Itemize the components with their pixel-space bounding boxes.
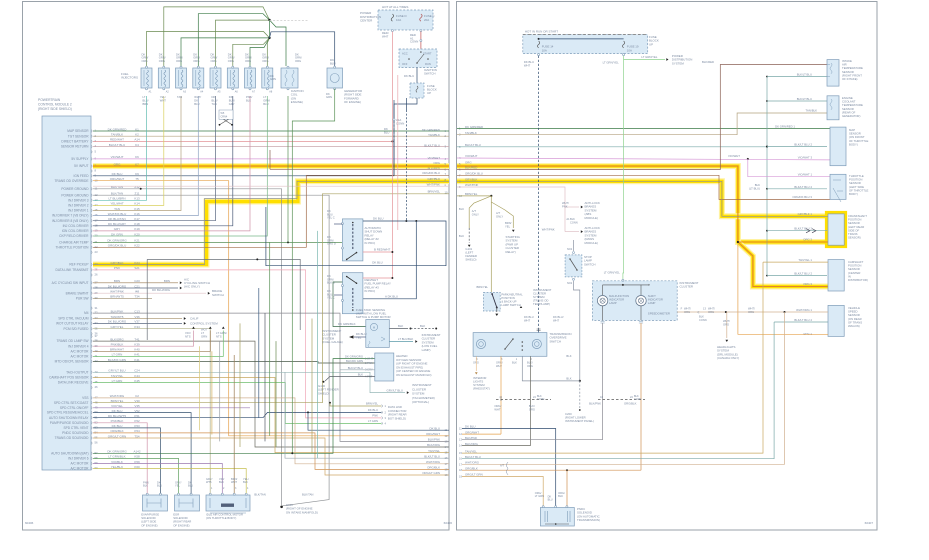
- wire row 60 YEL/BLK to idle air control pin 4: [93, 469, 246, 491]
- wire row 41 LT GRN up-arrow speed control: [93, 331, 223, 357]
- svg-text:LAMP SWITCH: LAMP SWITCH: [501, 303, 520, 307]
- wire row 48 BRN/YEL up to page-edge row: [93, 194, 449, 403]
- svg-text:WAGON): WAGON): [848, 324, 860, 328]
- svg-text:18: 18: [459, 468, 462, 472]
- svg-text:BLK: BLK: [459, 234, 464, 238]
- svg-text:15: 15: [459, 451, 462, 455]
- svg-text:60: 60: [95, 466, 99, 470]
- wire bottom 11 DK BLU to PNDC solenoid: [462, 429, 556, 508]
- svg-text:OF INTAKE): OF INTAKE): [842, 77, 858, 81]
- svg-text:T34: T34: [134, 294, 140, 298]
- vehicle speed sensor box: [828, 305, 844, 336]
- svg-text:YEL: YEL: [505, 224, 511, 228]
- wire bottom 18 ORG/BLK to cluster shift lamp and solenoid: [462, 469, 641, 471]
- svg-text:DISTRIBUTOR): DISTRIBUTOR): [848, 278, 868, 282]
- svg-text:OF ENGINE): OF ENGINE): [173, 523, 189, 527]
- relay pin C wires: [334, 294, 342, 296]
- TOS ORG/WHT wire to bottom row 12: [500, 356, 502, 434]
- svg-text:ORG: ORG: [433, 161, 440, 165]
- svg-text:GRY/BLK: GRY/BLK: [465, 178, 478, 182]
- svg-text:13: 13: [95, 198, 99, 202]
- svg-text:WHT/ORG: WHT/ORG: [426, 460, 441, 464]
- stop lamp dashed to C200: [579, 381, 581, 408]
- svg-text:GRN/: GRN/: [263, 98, 270, 102]
- wire row 25 PNK to data link connector: [93, 270, 382, 418]
- data link BRN/YEL branch: [329, 402, 331, 404]
- svg-text:TRANS OD OVERRIDE: TRANS OD OVERRIDE: [54, 179, 88, 183]
- svg-text:THROTTLE POSITION: THROTTLE POSITION: [56, 245, 90, 249]
- svg-text:IN PDC): IN PDC): [365, 289, 376, 293]
- wire row 51 DK BLU/WT5 to data link pin 2 with bevel: [93, 412, 382, 417]
- fuel pump relay RED/WHT pin: [363, 277, 393, 279]
- svg-text:SPD CTRL VACUUM: SPD CTRL VACUUM: [58, 317, 88, 321]
- fuse block up box: [410, 83, 424, 98]
- svg-text:DK BLU/: DK BLU/: [553, 315, 564, 319]
- BRN/YEL branch to park/neutral switch: [490, 196, 492, 293]
- svg-text:GRN: GRN: [270, 77, 276, 81]
- svg-text:SPD CTRL SET/COAST: SPD CTRL SET/COAST: [54, 401, 89, 405]
- wire row 57 DK GRN/ORG to oxygen sensor pin 1: [93, 359, 375, 454]
- svg-text:BLK/PNK: BLK/PNK: [428, 438, 440, 442]
- harness DK BLU wire to generator: [270, 32, 335, 66]
- svg-text:BLU: BLU: [548, 498, 553, 502]
- svg-text:WHT/: WHT/: [708, 307, 715, 311]
- svg-text:14: 14: [459, 444, 462, 448]
- svg-text:INJ DRIVER 1: INJ DRIVER 1: [68, 209, 89, 213]
- svg-text:VIO/WHT: VIO/WHT: [465, 154, 478, 158]
- svg-text:MODULE): MODULE): [585, 241, 598, 245]
- wire row 58 LT GRN/BLK to EGR pin 1: [93, 458, 179, 490]
- svg-text:LT GRN/YEL: LT GRN/YEL: [641, 55, 658, 59]
- svg-text:GRY/BLK 1: GRY/BLK 1: [798, 212, 813, 216]
- wire DK BLU below fuse block with connector: [394, 98, 417, 118]
- svg-text:WHT: WHT: [160, 98, 166, 102]
- second RED/WHT vertical filler: [397, 75, 399, 230]
- svg-text:DK: DK: [229, 95, 233, 99]
- BLK/LT BLU vertical bus: [766, 77, 768, 277]
- bottom row 11 DK BLU branch: [307, 411, 309, 413]
- svg-text:BLK: BLK: [570, 217, 575, 221]
- svg-text:10A: 10A: [396, 18, 401, 22]
- wire LT GRN/YEL from fuse 19: [624, 56, 665, 60]
- wire row 44 TAN/YEL to bottom row 15: [93, 378, 449, 453]
- svg-text:ORG: ORG: [465, 160, 472, 164]
- svg-text:CONTROL MODULE 2: CONTROL MODULE 2: [38, 102, 72, 106]
- svg-text:IGN FEED: IGN FEED: [73, 174, 89, 178]
- svg-text:ORG 1: ORG 1: [803, 332, 812, 336]
- svg-text:BLK/LT BLU 2: BLK/LT BLU 2: [794, 227, 812, 231]
- svg-text:WT5: WT5: [206, 480, 212, 484]
- EVAP purge solenoid box: [143, 495, 168, 511]
- wire row 43 GRY/LT BLU to tachometer arrow: [93, 372, 405, 392]
- svg-text:19: 19: [445, 473, 448, 477]
- svg-text:ORG: ORG: [529, 407, 535, 411]
- svg-text:TAN/BLK: TAN/BLK: [806, 109, 818, 113]
- svg-text:15: 15: [95, 208, 99, 212]
- svg-text:34: 34: [95, 321, 99, 325]
- svg-text:MAP SENSOR: MAP SENSOR: [67, 129, 89, 133]
- svg-text:ORG/DK BLU: ORG/DK BLU: [422, 171, 440, 175]
- svg-text:ENGINE): ENGINE): [291, 100, 303, 104]
- connector row dashed (24 BLK CONN) left: [496, 399, 551, 401]
- svg-text:ORG: ORG: [708, 310, 714, 314]
- wire ORG/BLK from shift lamp to bottom row 18: [640, 323, 642, 470]
- svg-text:VIO/WHT: VIO/WHT: [428, 156, 441, 160]
- svg-text:TEMP/LAMP): TEMP/LAMP): [533, 302, 550, 306]
- svg-text:CKP FIELD DRIVER: CKP FIELD DRIVER: [59, 234, 89, 238]
- svg-text:20A: 20A: [424, 18, 429, 22]
- svg-text:WHT: WHT: [494, 407, 500, 411]
- PCM pin rows: function labels, pin numbers, wire labels: [91, 129, 92, 132]
- wire row 42 BLK/DK GRN to oxygen sensor pin 2: [93, 362, 375, 364]
- svg-text:ORG: ORG: [159, 59, 165, 63]
- svg-text:ACC: ACC: [402, 52, 408, 56]
- svg-text:BLK: BLK: [246, 98, 251, 102]
- svg-text:2 PNK: 2 PNK: [365, 361, 373, 365]
- svg-text:REF PICKUP: REF PICKUP: [69, 263, 88, 267]
- generator box: [327, 68, 343, 88]
- wire row 7 ORG K7 (highlighted): [93, 165, 449, 167]
- fuel pump relay pin B wire to fuel tank unit: [333, 282, 366, 327]
- svg-text:BLK/LT BLU: BLK/LT BLU: [424, 144, 440, 148]
- svg-text:SENSOR RETURN: SENSOR RETURN: [61, 145, 89, 149]
- svg-text:10: 10: [445, 191, 448, 195]
- throttle position sensor box: [830, 174, 846, 199]
- BRN/YEL branch to starting system arrow: [491, 202, 513, 228]
- svg-text:BLK/LT BLU: BLK/LT BLU: [797, 73, 812, 77]
- misc vertical wire x258 navy: [258, 288, 260, 418]
- svg-text:17: 17: [445, 462, 448, 466]
- svg-text:CONN: CONN: [634, 398, 642, 401]
- svg-text:ORG: ORG: [295, 59, 301, 63]
- svg-text:LAMP): LAMP): [422, 348, 431, 352]
- svg-text:INJ DRIVER 3: INJ DRIVER 3: [68, 198, 89, 202]
- wire row 33 TAN/WT5 arrow CALIF: [93, 318, 182, 320]
- svg-text:ORG/DK BLU: ORG/DK BLU: [465, 172, 483, 176]
- misc vertical olive x312: [311, 319, 313, 453]
- svg-text:13: 13: [445, 439, 448, 443]
- TOS BLK wire to junction: [522, 356, 580, 381]
- svg-text:5V SUPPLY: 5V SUPPLY: [71, 157, 89, 161]
- svg-text:INJ DRIVER 4: INJ DRIVER 4: [68, 344, 89, 348]
- instrument cluster box (right page): [592, 281, 677, 321]
- svg-text:45: 45: [95, 380, 99, 384]
- svg-text:OF ENGINE): OF ENGINE): [141, 523, 157, 527]
- svg-text:BLU: BLU: [384, 130, 389, 134]
- svg-text:TAN/BLK: TAN/BLK: [428, 133, 440, 137]
- svg-text:CHARGE AIR TEMP: CHARGE AIR TEMP: [59, 241, 88, 245]
- svg-text:BLU/: BLU/: [212, 98, 218, 102]
- svg-text:20: 20: [95, 234, 99, 238]
- svg-text:18: 18: [445, 467, 448, 471]
- svg-text:SWITCH: SWITCH: [424, 72, 435, 76]
- small connector W5 box with X wires: [219, 110, 233, 119]
- wire row 34 DK BLU/ORG arrow CONTROL SYSTEM: [93, 322, 182, 324]
- svg-text:GRN: GRN: [201, 334, 207, 338]
- ignition coil harness top wires to junction 1: [164, 7, 270, 68]
- svg-text:A DK BLU: A DK BLU: [385, 294, 398, 298]
- svg-text:BLK/ORG: BLK/ORG: [465, 442, 479, 446]
- svg-text:BLU: BLU: [188, 484, 193, 488]
- PCM connector box (Powertrain Control Module): [42, 116, 91, 470]
- svg-text:GENERATOR): GENERATOR): [842, 114, 860, 118]
- svg-text:PUMP/PURGE SOLENOID: PUMP/PURGE SOLENOID: [50, 421, 89, 425]
- svg-text:ORG/LT GRN: ORG/LT GRN: [465, 473, 483, 477]
- right page frame: [457, 2, 878, 531]
- svg-text:BLU: BLU: [263, 102, 268, 106]
- svg-text:(A/C ONLY): (A/C ONLY): [184, 285, 200, 289]
- svg-text:POWER GROUND: POWER GROUND: [61, 193, 89, 197]
- oxygen sensor box: [375, 353, 394, 381]
- svg-text:BLK: BLK: [459, 207, 464, 211]
- svg-text:BLK/TAN: BLK/TAN: [302, 492, 313, 496]
- cluster lamp output wires down: [602, 306, 604, 321]
- svg-text:TRANSMISSION): TRANSMISSION): [577, 518, 600, 522]
- injector wire rows 13-20 up to coil connectors: [93, 96, 147, 200]
- fuel tank unit DK BLU/YEL arrow to fuel gauge: [354, 336, 366, 338]
- svg-text:19: 19: [95, 229, 99, 233]
- svg-text:60407: 60407: [865, 521, 874, 525]
- svg-text:A/C CYCLING SW INPUT: A/C CYCLING SW INPUT: [52, 281, 89, 285]
- svg-text:ORG: ORG: [142, 59, 148, 63]
- wire row 27 BRN to A/C cycling switch: [93, 282, 178, 284]
- svg-text:CONN: CONN: [537, 398, 545, 401]
- dashed DK BLU vertical to ASD relay: [405, 98, 407, 110]
- svg-text:SPD CTRL ON/OFF: SPD CTRL ON/OFF: [60, 406, 89, 410]
- svg-text:MODULE): MODULE): [585, 216, 598, 220]
- svg-text:POWER GROUND: POWER GROUND: [61, 187, 89, 191]
- svg-text:17: 17: [95, 218, 99, 222]
- svg-text:ORG/DK BLU 3: ORG/DK BLU 3: [792, 195, 812, 199]
- svg-text:12: 12: [459, 432, 462, 436]
- svg-text:RELAY): RELAY): [506, 250, 516, 254]
- wire row 40 BRN/WHT up-arrow speed control: [93, 331, 210, 352]
- ASD relay output DK BLU wire: [363, 220, 407, 222]
- svg-text:BLK: BLK: [566, 354, 571, 358]
- svg-text:NTS: NTS: [185, 334, 191, 338]
- wire WHT/ORG from cluster to VSS: [677, 311, 828, 313]
- svg-text:DK BLU: DK BLU: [373, 217, 383, 221]
- harness arrow to ignition coil on engine: [285, 70, 287, 72]
- svg-text:BLU: BLU: [157, 484, 162, 488]
- svg-text:CAMSHAFT POS SENSOR: CAMSHAFT POS SENSOR: [49, 376, 89, 380]
- svg-text:SYSTEM: SYSTEM: [672, 61, 684, 65]
- wire row 6 VIO/WHT K6: [93, 158, 449, 160]
- svg-text:CONN: CONN: [699, 318, 707, 322]
- svg-text:LT: LT: [143, 95, 146, 99]
- svg-text:BLU: BLU: [194, 102, 199, 106]
- svg-text:25: 25: [95, 268, 99, 272]
- svg-text:BLK/LT BLU 2: BLK/LT BLU 2: [794, 272, 812, 276]
- highlighted wire GRY/BLK circuit - right page (yellow halo): [457, 181, 828, 216]
- svg-text:BLK/LT BLU: BLK/LT BLU: [424, 454, 440, 458]
- svg-text:OFF: OFF: [402, 62, 408, 66]
- svg-text:YEL: YEL: [356, 335, 362, 339]
- shift indicator lamp: [636, 296, 646, 306]
- svg-text:GRY: GRY: [229, 102, 235, 106]
- ignition coil (on engine) box: [281, 68, 298, 88]
- svg-text:A/T: A/T: [500, 464, 505, 468]
- svg-text:19: 19: [459, 475, 462, 479]
- camshaft position sensor box: [828, 260, 844, 291]
- svg-text:UP: UP: [427, 91, 431, 95]
- svg-text:DK GRN/RED 1: DK GRN/RED 1: [775, 124, 795, 128]
- svg-text:BGT SHIELD): BGT SHIELD): [388, 416, 406, 420]
- svg-text:NO2: NO2: [567, 248, 573, 251]
- transmission overdrive switch box: [473, 333, 547, 357]
- svg-text:52: 52: [95, 420, 99, 424]
- svg-text:ON INTAKE MANIFOLD): ON INTAKE MANIFOLD): [286, 510, 318, 514]
- svg-text:DK: DK: [212, 95, 216, 99]
- wire row 1 DK GRN/RED K1: [93, 130, 449, 132]
- svg-text:ORG/BLK: ORG/BLK: [624, 402, 637, 406]
- svg-text:1 WHT: 1 WHT: [365, 356, 373, 360]
- svg-text:PNDC SOLENOID: PNDC SOLENOID: [62, 431, 89, 435]
- svg-text:10A: 10A: [627, 48, 632, 52]
- wire bottom 12 ORG/WHT to TOS pin3: [462, 433, 501, 435]
- oxygen sensor ground wire to G100: [325, 377, 375, 382]
- svg-text:SWITCH: SWITCH: [212, 293, 224, 297]
- svg-text:46: 46: [95, 385, 99, 389]
- svg-text:BODY): BODY): [849, 192, 858, 196]
- wire row 53 DK BLU to EVAP solenoid pin 2: [93, 428, 160, 490]
- svg-text:ORG: ORG: [262, 59, 268, 63]
- svg-text:38: 38: [95, 339, 99, 343]
- svg-text:NO2: NO2: [567, 282, 573, 285]
- svg-text:MTD OD/CPL SENSOR: MTD OD/CPL SENSOR: [55, 360, 90, 364]
- wire row 12 BLK/TAN Z11 to ground G110: [93, 195, 329, 506]
- highlighted wire ORG circuit - right page (yellow halo): [457, 166, 828, 242]
- wire ORG continuation to VSS pin 3: [738, 244, 828, 334]
- svg-text:BLK/LT BLU 2: BLK/LT BLU 2: [794, 318, 812, 322]
- svg-text:RUN: RUN: [425, 62, 431, 66]
- svg-text:UP: UP: [649, 42, 653, 46]
- gray wire near ref pickup path: [147, 259, 300, 330]
- TOS ORG wire to interior lights: [475, 356, 477, 371]
- crankshaft position sensor box: [828, 214, 844, 245]
- svg-text:DATA LINK TRANSMIT: DATA LINK TRANSMIT: [56, 268, 89, 272]
- svg-text:ORG/LT GRN: ORG/LT GRN: [422, 471, 440, 475]
- wire RED from fuse C to ignition switch: [420, 32, 422, 50]
- svg-text:PUR SW: PUR SW: [76, 296, 89, 300]
- svg-text:BLK: BLK: [219, 480, 224, 484]
- wire row 29 WHT/PNK arrow: [93, 292, 206, 294]
- svg-text:BLK/LT BLU: BLK/LT BLU: [797, 97, 812, 101]
- wire row 45 LT GRN to data link pin 4: [93, 383, 382, 424]
- svg-text:BLK: BLK: [398, 324, 403, 328]
- wire row 55 ORG/LT GRN to bottom row 19: [93, 438, 449, 475]
- idle air control motor box: [206, 495, 250, 511]
- svg-text:LT GRN/YEL: LT GRN/YEL: [604, 271, 621, 275]
- idle air control pin 3 BRN/WHT wire: [233, 355, 235, 490]
- wire row 49 VIO/YEL stub: [93, 407, 250, 409]
- svg-text:37: 37: [95, 334, 99, 338]
- stop lamp switch wires: [573, 240, 575, 251]
- svg-text:ORG: ORG: [211, 59, 217, 63]
- svg-text:SPD CTRL RESUME/ACCEL: SPD CTRL RESUME/ACCEL: [47, 411, 89, 415]
- wire row 4 BLK/LT BLU K4: [93, 146, 449, 148]
- svg-text:INSTRUMENT PANEL): INSTRUMENT PANEL): [565, 419, 594, 423]
- svg-text:22: 22: [95, 245, 99, 249]
- ASD relay pin C wire: [334, 223, 342, 225]
- svg-text:ORG: ORG: [723, 322, 729, 326]
- svg-text:WHT: WHT: [524, 318, 530, 322]
- svg-text:LAMP: LAMP: [609, 301, 617, 305]
- svg-text:WHT/ORG 1: WHT/ORG 1: [796, 308, 812, 312]
- wire bottom 17 WHT/ORG to VSS pin1: [462, 312, 785, 464]
- svg-text:PNK: PNK: [562, 204, 568, 208]
- wire BLK/RED partial row: [270, 168, 449, 170]
- wire row 3 RED/WHT A14: [93, 140, 392, 142]
- MAP sensor box: [830, 127, 846, 166]
- engine coolant temperature sensor box: [827, 96, 839, 120]
- svg-text:SWITCH: SWITCH: [550, 339, 561, 343]
- svg-text:BLK/PNK: BLK/PNK: [589, 402, 601, 406]
- svg-text:56: 56: [95, 441, 99, 445]
- svg-text:INJ DRIVER 8 (V8 ONLY): INJ DRIVER 8 (V8 ONLY): [52, 219, 89, 223]
- fuse C: [420, 14, 422, 21]
- generator DK GRN wire down: [292, 89, 334, 454]
- svg-text:(FUEL GAUGE): (FUEL GAUGE): [322, 340, 342, 344]
- BRN/YEL branch to ground G101: [469, 196, 491, 228]
- svg-text:(RIGHT SIDE SHIELD): (RIGHT SIDE SHIELD): [38, 107, 72, 111]
- svg-text:13: 13: [459, 438, 462, 442]
- svg-text:CONN: CONN: [410, 40, 418, 44]
- svg-text:32: 32: [95, 311, 99, 315]
- svg-text:ORG: ORG: [193, 59, 199, 63]
- svg-text:16: 16: [95, 213, 99, 217]
- svg-text:AUTO SHUTDOWN RELAY: AUTO SHUTDOWN RELAY: [49, 416, 89, 420]
- svg-text:(LT BLU): (LT BLU): [749, 186, 760, 190]
- svg-text:ORG: ORG: [245, 59, 251, 63]
- svg-text:VIO/WHT: VIO/WHT: [728, 154, 740, 158]
- svg-text:40: 40: [95, 349, 99, 353]
- svg-text:LT BLU/BLK: LT BLU/BLK: [398, 337, 413, 341]
- wire row 52 PNK/BLK to EVAP solenoid pin 1: [93, 423, 147, 490]
- ignition coil DK GRN down wire: [287, 96, 289, 242]
- wire RED/WHT from fuse D down to relays: [391, 32, 393, 279]
- svg-text:SPEEDOMETER: SPEEDOMETER: [648, 312, 670, 316]
- svg-text:(ON THROTTLE BODY): (ON THROTTLE BODY): [206, 516, 236, 520]
- stop lamp switch box: [565, 255, 582, 277]
- svg-text:ORG/WHT: ORG/WHT: [426, 432, 440, 436]
- svg-text:BLK: BLK: [420, 324, 425, 328]
- wire r4 VIO/WHT to MAP pin3 and TPS pin1: [457, 158, 830, 160]
- svg-text:CONN: CONN: [396, 121, 404, 125]
- wire row 54 ORG/BLK to bottom row 18: [93, 433, 449, 470]
- wire row 47 WHT/ORG to bottom row 17: [93, 398, 449, 464]
- highlighted wire ORG circuit - left page (yellow halo): [93, 163, 449, 169]
- svg-text:CRN4: CRN4: [221, 116, 228, 119]
- svg-text:LT GRN: LT GRN: [535, 494, 544, 498]
- svg-text:30: 30: [95, 296, 99, 300]
- svg-text:INJ DRIVER 6: INJ DRIVER 6: [68, 457, 89, 461]
- svg-text:SWITCH: SWITCH: [584, 262, 595, 266]
- svg-text:IGN COIL DRIVER: IGN COIL DRIVER: [62, 229, 90, 233]
- svg-text:60406: 60406: [25, 521, 34, 525]
- wire r10 BRN/YEL branches: [457, 195, 491, 197]
- svg-text:TRANS OD LAMP SW: TRANS OD LAMP SW: [57, 339, 89, 343]
- svg-text:CLUSTER: CLUSTER: [680, 285, 694, 289]
- svg-text:WHT: WHT: [496, 364, 502, 368]
- connector row dashed (24 BLK CONN) right: [598, 399, 645, 401]
- svg-text:21: 21: [95, 240, 99, 244]
- svg-text:OF ENGINE): OF ENGINE): [344, 100, 361, 104]
- ground G110 symbol and label: [280, 506, 283, 509]
- svg-text:((: ((: [698, 310, 700, 314]
- intake air temperature sensor box: [827, 60, 839, 87]
- crankshaft position sensor highlight box (yellow): [827, 213, 846, 247]
